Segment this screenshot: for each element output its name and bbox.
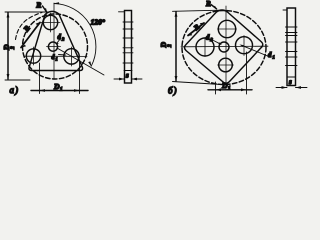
centerline cross of center hole (fig a) <box>47 46 61 48</box>
label d2 with leader (fig a) <box>56 34 65 45</box>
svg-text:а): а) <box>10 85 19 95</box>
svg-text:1: 1 <box>273 55 275 60</box>
leader R to top corner (fig a) <box>43 6 48 13</box>
side view plate (fig b) <box>283 8 297 86</box>
label d1 with arrow to right hole (fig a) <box>52 54 67 62</box>
svg-text:R: R <box>35 1 41 10</box>
dashed arc upper-left (fig a) <box>16 13 43 40</box>
dimension D1 bottom (fig b) <box>208 52 252 94</box>
svg-text:D: D <box>2 44 11 51</box>
svg-text:1: 1 <box>228 87 231 92</box>
dashed blank circle D2 (fig b) <box>182 11 266 85</box>
svg-text:s: s <box>288 79 292 86</box>
thickness dimension s (fig b) <box>276 86 307 89</box>
angle arc 120 deg (fig a) <box>54 2 96 67</box>
svg-text:d: d <box>206 35 210 42</box>
dashed blank circle D2 (fig a) <box>23 14 88 79</box>
horizontal centerline through bottom holes (fig a) <box>24 55 87 57</box>
svg-text:s: s <box>125 73 129 80</box>
vertical centerline (fig b) <box>225 6 227 90</box>
dimension D2 vertical (fig a) <box>5 12 49 80</box>
bushing hole top (fig a) <box>41 13 60 32</box>
svg-text:2: 2 <box>11 46 16 50</box>
bushing hole right (fig b) <box>236 36 253 56</box>
label d1 with leader to right hole (fig b) <box>240 45 275 60</box>
svg-text:d: d <box>268 52 272 59</box>
vertical centerline (fig a) <box>53 3 55 79</box>
svg-text:D: D <box>53 82 60 91</box>
radius dimension R rotated (fig b) <box>187 22 204 36</box>
side view plate (fig a) <box>119 11 134 84</box>
dimension D1 bottom (fig a) <box>31 62 88 94</box>
plate outline square rotated (fig b) <box>185 10 263 83</box>
svg-text:D: D <box>221 81 228 90</box>
bushing hole bottom-left (fig a) <box>26 47 40 65</box>
label d2 with leader (fig b) <box>206 35 222 45</box>
svg-text:1: 1 <box>56 57 58 62</box>
dimension D2 vertical (fig b) <box>173 10 222 84</box>
center hole d2 (fig a) <box>48 42 57 51</box>
bushing hole top (fig b) <box>218 20 237 37</box>
bushing hole bottom (fig b) <box>218 58 234 72</box>
label D1 (fig a) <box>53 82 63 93</box>
radius dimension R rotated (fig a) <box>21 22 41 48</box>
bushing hole bottom-right (fig a) <box>64 47 79 66</box>
svg-text:D: D <box>159 42 168 49</box>
svg-text:2: 2 <box>168 44 173 48</box>
svg-text:120°: 120° <box>91 18 105 27</box>
thickness dimension s (fig a) <box>114 78 142 81</box>
bushing hole left (fig b) <box>196 38 214 57</box>
radial line of 120 deg angle through right hole (fig a) <box>57 48 104 75</box>
svg-text:1: 1 <box>60 88 63 93</box>
plate outline triangle (fig a) <box>29 11 83 70</box>
horizontal centerline (fig b) <box>181 45 268 48</box>
label D2 rotated (fig a) <box>2 44 16 51</box>
label D2 rotated (fig b) <box>159 42 173 49</box>
center hole d2 (fig b) <box>219 42 229 52</box>
leader R to top corner (fig b) <box>211 5 217 10</box>
label D1 (fig b) <box>221 81 231 92</box>
svg-text:R: R <box>205 0 211 8</box>
svg-text:б): б) <box>168 86 177 96</box>
